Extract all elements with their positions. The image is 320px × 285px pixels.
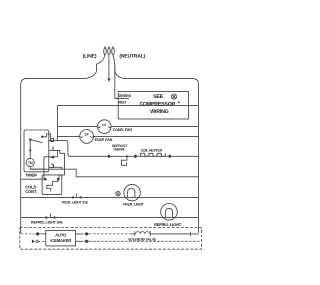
defrost thermostat hook xyxy=(121,156,127,165)
wire: icemaker output top with connector xyxy=(76,233,84,235)
icemaker dashed enclosure xyxy=(20,228,202,250)
wire: terminal 3 stub and drop xyxy=(49,167,62,169)
plug prong GROUND xyxy=(108,47,111,54)
wire: top-right rail xyxy=(123,78,199,84)
wire: timer motor return xyxy=(30,167,44,170)
wire: TM return row east with step down to right border xyxy=(30,169,198,177)
svg-text:REFRIG. LIGHT: REFRIG. LIGHT xyxy=(154,222,182,227)
wire: NEUTRAL prong down to top-right rail xyxy=(113,54,123,78)
wire: freezer light row xyxy=(21,196,199,198)
svg-text:REFRIG. LIGHT SW.: REFRIG. LIGHT SW. xyxy=(31,220,63,224)
wire: left border bend into icemaker feed xyxy=(21,233,35,235)
coil heater element xyxy=(141,153,166,156)
timer motor TM xyxy=(26,158,34,166)
svg-text:EVAP. FAN: EVAP. FAN xyxy=(95,138,113,142)
cold control right contact dot xyxy=(57,178,60,181)
ground arrowhead xyxy=(107,78,110,82)
svg-text:COMPRESSOR: COMPRESSOR xyxy=(139,101,175,107)
icemaker water fill tube symbol xyxy=(32,240,46,244)
svg-text:THERM.: THERM. xyxy=(113,148,125,152)
motor: evaporator fan xyxy=(80,130,94,144)
overload symbol in compressor box xyxy=(171,94,179,103)
wire: feed row from left border to cold control xyxy=(21,178,46,180)
motor: condenser fan xyxy=(98,120,112,134)
ground wire from middle prong xyxy=(108,54,110,78)
cold control left contact dot xyxy=(44,178,47,181)
defrost timer box xyxy=(24,130,49,172)
auto icemaker box xyxy=(46,231,76,246)
label terminal 1 xyxy=(52,147,53,150)
wire: timer contact 2 internal xyxy=(42,134,50,141)
wire: timer internal contact 4 xyxy=(44,156,49,158)
wire: refrigerator light row xyxy=(21,217,199,219)
svg-text:CONT.: CONT. xyxy=(25,189,37,194)
compressor box SEE COMPRESSOR WIRING xyxy=(118,92,188,120)
wire: top-left rail xyxy=(21,78,80,84)
wire: LINE prong down to top-left rail xyxy=(80,54,105,78)
wire: evaporator fan row xyxy=(57,135,198,137)
wire: left bus corner xyxy=(56,106,58,141)
solenoid valve coil xyxy=(135,231,191,236)
wire: green drop from neutral bend to compressor GREEN terminal xyxy=(115,66,118,98)
label terminal 2 xyxy=(51,138,54,141)
wire: terminal 2 stub xyxy=(49,140,58,142)
svg-text:GREEN: GREEN xyxy=(119,94,132,98)
connector on icemaker feed xyxy=(35,232,39,235)
refrigerator light switch actuator tick xyxy=(49,214,51,218)
wire: right border rail xyxy=(198,85,200,233)
connector before coil heater xyxy=(134,155,137,158)
wire: condenser fan row xyxy=(57,126,198,128)
wire: timer common vertical to motor xyxy=(29,140,31,159)
svg-text:FRZR. LIGHT SW.: FRZR. LIGHT SW. xyxy=(62,201,89,205)
svg-text:RED: RED xyxy=(119,101,127,105)
svg-text:ICEMAKER: ICEMAKER xyxy=(50,238,71,243)
timer switch arm xyxy=(30,140,42,143)
wire: dashed run from icemaker to solenoid valve xyxy=(89,233,131,235)
plug prong NEUTRAL xyxy=(112,47,115,54)
wire: solenoid row xyxy=(131,233,199,235)
connector after coil heater xyxy=(168,155,171,158)
svg-text:SEE: SEE xyxy=(153,94,164,100)
svg-text:WIRING: WIRING xyxy=(150,109,168,115)
cold control box xyxy=(42,175,62,195)
freezer light switch contact dots xyxy=(72,196,74,198)
svg-text:COND. FAN: COND. FAN xyxy=(113,128,133,132)
wire: left border rail xyxy=(20,85,22,234)
svg-text:COIL HEATER: COIL HEATER xyxy=(141,149,163,153)
lamp: freezer light xyxy=(124,184,140,200)
wire: dashed icemaker return run xyxy=(89,240,201,242)
wire: jumper terminal1-terminal4 bus end xyxy=(56,150,58,156)
wire: GREEN terminal stub xyxy=(115,97,129,99)
wire: terminal 2 jog east to defrost row xyxy=(57,141,70,157)
svg-text:TM: TM xyxy=(28,161,33,165)
wire: terminal 4 stub xyxy=(49,156,58,158)
svg-text:CF: CF xyxy=(102,123,106,127)
wire: terminal 1 stub and drop to cold control xyxy=(49,150,65,179)
wire: defrost heater row xyxy=(69,155,199,157)
timer junction dot terminal 1 xyxy=(29,149,31,151)
connector on defrost row left xyxy=(107,155,110,158)
timer contact dot terminal 2 xyxy=(41,136,43,138)
freezer light switch actuator tick xyxy=(75,193,77,197)
wire: vertical from contact 4 down to cold control left contact xyxy=(44,157,46,179)
wire: icemaker output bottom with connector xyxy=(76,240,84,242)
svg-text:(LINE): (LINE) xyxy=(83,53,97,59)
svg-text:FRZR. LIGHT: FRZR. LIGHT xyxy=(123,203,144,207)
lamp: refrigerator light xyxy=(161,204,178,221)
receptacle symbol on freezer light row xyxy=(116,191,120,195)
wire: icemaker feed stub xyxy=(40,233,46,235)
label terminal 3 xyxy=(51,164,54,168)
defrost thermostat junction dot xyxy=(126,155,128,157)
label terminal 4 xyxy=(51,156,54,159)
svg-text:TIMER: TIMER xyxy=(25,173,37,178)
timer contact pivot dot xyxy=(29,138,31,140)
svg-text:SOLENOID VALVE: SOLENOID VALVE xyxy=(128,237,157,241)
plug prong LINE xyxy=(104,47,107,54)
wire: main run line (RED) from corner bus through box to right border xyxy=(57,105,198,107)
refrigerator light switch contact dots xyxy=(45,216,47,218)
cold control bellows zigzag xyxy=(47,179,58,191)
svg-text:EF: EF xyxy=(85,133,89,137)
svg-text:(NEUTRAL): (NEUTRAL) xyxy=(119,53,145,59)
